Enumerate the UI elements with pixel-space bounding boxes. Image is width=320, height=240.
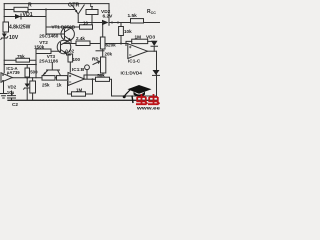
wire rail right (109, 22, 160, 24)
zener VD5 (25, 84, 30, 88)
diode VD4 (153, 70, 160, 75)
wire 75k row (4, 59, 36, 61)
svg-text:75k: 75k (17, 54, 25, 59)
svg-text:25C1460: 25C1460 (39, 34, 58, 39)
svg-text:VD1: VD1 (23, 12, 33, 18)
svg-text:1M: 1M (76, 87, 83, 92)
svg-text:25k: 25k (42, 82, 50, 87)
wire top rail (4, 3, 109, 5)
svg-text:μA739: μA739 (7, 70, 21, 75)
inductor L (86, 10, 98, 15)
svg-text:50k: 50k (97, 73, 105, 78)
wire vertical x121 10k (120, 23, 122, 44)
wire pot bottom (84, 73, 103, 79)
resistor 1M (IC1-B) (72, 92, 86, 96)
resistor 620k (100, 37, 105, 49)
box component (30, 81, 36, 93)
svg-text:0.02: 0.02 (65, 49, 74, 54)
svg-text:VD3: VD3 (146, 35, 156, 40)
wire 50k right (110, 79, 112, 96)
junction bar (96, 50, 104, 52)
wire vertical x46 (45, 10, 47, 35)
svg-text:10µ: 10µ (7, 90, 15, 95)
svg-text:2.4k: 2.4k (76, 36, 85, 41)
wire vertical x36 (35, 51, 37, 78)
wire VT2 base (36, 50, 61, 52)
resistor 100 (68, 54, 73, 62)
wire vertical 620k (102, 23, 104, 58)
transistor arrows (44, 10, 78, 75)
wire 1M feedback (68, 79, 93, 94)
svg-text:C2: C2 (12, 102, 18, 107)
svg-text:10V: 10V (9, 35, 19, 41)
resistor 1M (IC1-C feedback) (132, 39, 148, 43)
transistor VT3 (43, 63, 61, 76)
resistor 10k (119, 27, 124, 36)
transistor GTR (72, 5, 84, 23)
svg-text:VD2: VD2 (8, 84, 17, 89)
svg-text:10k: 10k (124, 29, 132, 34)
transistor VT1 (61, 27, 74, 40)
wire mid row (64, 43, 128, 45)
wire IC1-A out / input row (12, 77, 42, 79)
wire vertical x109 corner (108, 4, 110, 26)
op-amp IC1-B (68, 73, 85, 86)
diode VD3 (151, 41, 158, 46)
wire IC1-B out (85, 78, 96, 80)
resistor 500 (25, 68, 30, 77)
junction dots (26, 9, 122, 81)
svg-text:20k: 20k (105, 52, 113, 57)
watermark chars (136, 94, 160, 104)
watermark char 2 (148, 94, 160, 104)
wire right border (156, 51, 158, 96)
op-amp IC1-A (1, 73, 12, 83)
resistor 75k (16, 58, 30, 62)
resistor 2.4k (76, 41, 90, 46)
svg-text:6.2V: 6.2V (103, 13, 114, 19)
wire IC1-C out (148, 50, 157, 52)
diode VD1 (15, 14, 21, 19)
svg-text:www.ee: www.ee (136, 107, 160, 111)
wire VT1 base (46, 33, 65, 35)
svg-text:620k: 620k (106, 43, 117, 48)
svg-text:1.5k: 1.5k (128, 13, 138, 19)
svg-text:R: R (28, 2, 32, 8)
svg-text:500: 500 (30, 70, 38, 75)
resistor 1.5k (131, 19, 144, 23)
svg-text:2SA1186: 2SA1186 (39, 59, 58, 64)
svg-text:150k: 150k (34, 45, 45, 50)
resistor 50k (96, 77, 110, 81)
wire GTR emitter rail (78, 22, 102, 24)
svg-text:RP: RP (92, 57, 99, 62)
svg-text:GTR: GTR (68, 2, 79, 8)
resistor 4.8k/25W (3, 22, 9, 32)
svg-text:1k: 1k (57, 82, 63, 87)
terminal circle (85, 65, 90, 70)
text labels (6, 2, 156, 107)
op-amp IC1-C (128, 44, 148, 59)
wire left rail (3, 4, 5, 73)
watermark graduation cap (123, 85, 152, 103)
svg-text:1M: 1M (135, 35, 142, 40)
diode VD2 (102, 20, 109, 25)
resistor 150k (36, 49, 51, 54)
wire x4-35 row2 (4, 64, 36, 66)
wire bottom rail (8, 99, 157, 101)
svg-text:IC1:B: IC1:B (72, 67, 85, 72)
watermark char 1 (136, 94, 148, 104)
potentiometer RP (101, 57, 106, 73)
wire bottom right (112, 95, 157, 97)
wire terminal down (86, 70, 88, 79)
op-amp marks (2, 46, 131, 82)
resistor 25k (42, 76, 55, 81)
ground (1, 81, 7, 98)
svg-text:4.8k/25W: 4.8k/25W (9, 25, 31, 31)
zener 10V (2, 34, 7, 38)
wire R row (4, 9, 75, 11)
svg-text:RCC: RCC (147, 9, 156, 15)
transistor VT2 (57, 40, 71, 54)
svg-text:IC1-C: IC1-C (128, 59, 141, 64)
resistor 1k (57, 76, 68, 81)
svg-text:VT1 D850B: VT1 D850B (52, 24, 76, 29)
wire VD1 row (4, 16, 46, 18)
svg-text:10: 10 (83, 20, 89, 25)
wire collector row (46, 26, 80, 28)
capacitor C2 (8, 91, 16, 100)
svg-text:IC1:DVD4: IC1:DVD4 (121, 70, 143, 75)
svg-text:100: 100 (73, 57, 81, 62)
resistor R (14, 7, 28, 11)
resistor 10 (80, 25, 93, 29)
